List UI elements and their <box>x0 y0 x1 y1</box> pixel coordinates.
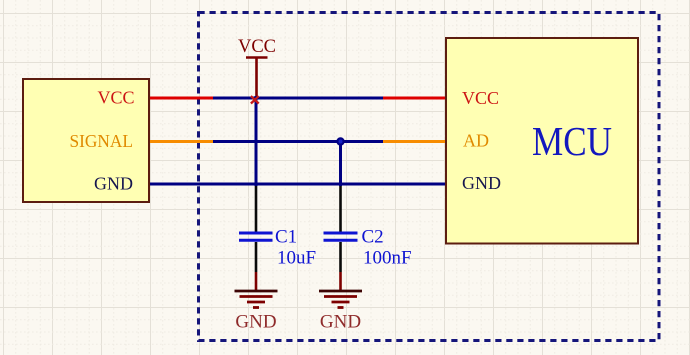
svg-text:SIGNAL: SIGNAL <box>70 131 134 151</box>
svg-text:100nF: 100nF <box>363 248 412 269</box>
svg-text:GND: GND <box>235 312 276 333</box>
svg-text:10uF: 10uF <box>277 248 316 269</box>
svg-text:MCU: MCU <box>532 118 612 164</box>
svg-text:C1: C1 <box>275 227 297 248</box>
svg-text:GND: GND <box>94 174 133 194</box>
svg-text:GND: GND <box>320 312 361 333</box>
svg-text:AD: AD <box>463 131 489 151</box>
svg-text:GND: GND <box>462 173 501 193</box>
svg-text:VCC: VCC <box>238 37 276 57</box>
svg-text:C2: C2 <box>362 227 384 248</box>
svg-text:VCC: VCC <box>97 88 134 108</box>
svg-text:VCC: VCC <box>462 88 499 108</box>
